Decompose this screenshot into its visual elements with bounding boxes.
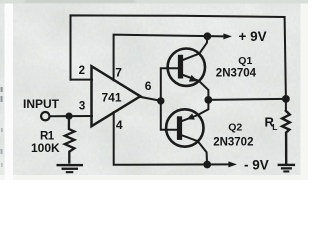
svg-text:100K: 100K bbox=[31, 141, 60, 155]
svg-text:Q2: Q2 bbox=[228, 121, 242, 133]
svg-text:2N3702: 2N3702 bbox=[213, 136, 253, 148]
svg-text:INPUT: INPUT bbox=[23, 97, 60, 111]
svg-text:Q1: Q1 bbox=[238, 55, 252, 67]
svg-text:741: 741 bbox=[102, 91, 122, 105]
svg-text:6: 6 bbox=[145, 79, 152, 93]
svg-text:L: L bbox=[272, 122, 277, 132]
svg-text:3: 3 bbox=[79, 100, 85, 112]
svg-text:+ 9V: + 9V bbox=[239, 29, 267, 44]
svg-text:2N3704: 2N3704 bbox=[216, 67, 257, 79]
svg-text:- 9V: - 9V bbox=[244, 157, 269, 172]
svg-text:2: 2 bbox=[79, 65, 85, 77]
svg-text:4: 4 bbox=[116, 118, 123, 132]
svg-text:7: 7 bbox=[115, 66, 122, 80]
